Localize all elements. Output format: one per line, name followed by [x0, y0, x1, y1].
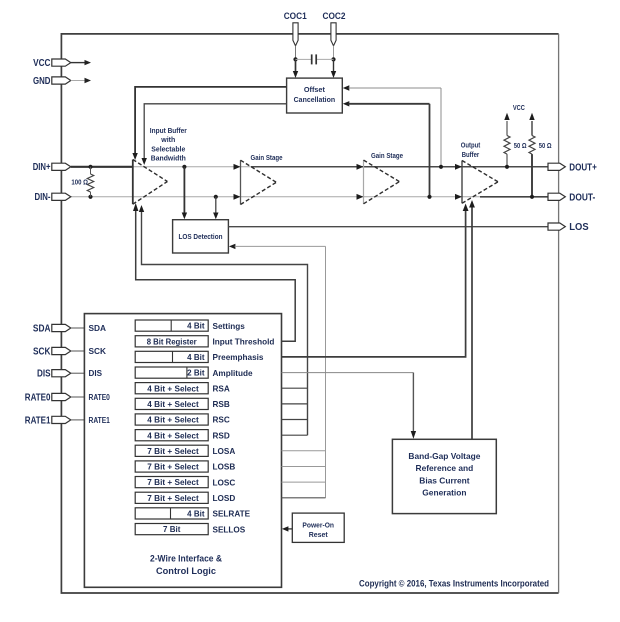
svg-text:SELLOS: SELLOS — [213, 525, 246, 534]
register row RSC — [135, 414, 230, 425]
pin DIS — [37, 369, 84, 380]
svg-text:LOSB: LOSB — [213, 463, 236, 472]
capacitor between COC1 and COC2 — [296, 54, 334, 64]
svg-text:4 Bit + Select: 4 Bit + Select — [147, 400, 199, 409]
svg-text:SELRATE: SELRATE — [213, 510, 251, 519]
svg-text:SDA: SDA — [33, 323, 51, 334]
svg-text:SCK: SCK — [89, 347, 107, 356]
svg-text:Output: Output — [461, 141, 481, 150]
pin RATE1 — [25, 415, 85, 426]
resistor 100 ohm input termination — [71, 165, 93, 199]
block 2-wire interface control logic — [84, 314, 281, 588]
svg-text:Input Threshold: Input Threshold — [213, 338, 275, 347]
node junction to LOS detection from top rail — [182, 165, 187, 220]
block Offset Cancellation — [287, 78, 343, 113]
svg-text:RATE1: RATE1 — [25, 415, 51, 426]
pin VCC — [33, 58, 71, 69]
svg-text:SCK: SCK — [33, 346, 51, 357]
svg-text:4 Bit: 4 Bit — [187, 353, 205, 362]
svg-text:RSC: RSC — [213, 416, 230, 425]
svg-text:RATE1: RATE1 — [89, 416, 111, 425]
register row RSD — [135, 430, 230, 441]
resistor 50 ohm pullup 2 — [529, 113, 552, 199]
pin SCK — [33, 346, 84, 357]
svg-text:Reset: Reset — [309, 532, 329, 539]
svg-text:Reference and: Reference and — [416, 463, 474, 473]
op-amp output buffer — [461, 141, 498, 204]
pin COC2 — [323, 11, 346, 46]
pin DIN+ — [33, 162, 71, 173]
wire GND arrow — [71, 78, 91, 83]
svg-text:Gain Stage: Gain Stage — [251, 153, 283, 162]
svg-text:Cancellation: Cancellation — [294, 95, 336, 104]
svg-text:4 Bit + Select: 4 Bit + Select — [147, 416, 199, 425]
wire feedback lower from DOUT- rail to offset — [343, 101, 432, 199]
pin GND — [33, 76, 71, 87]
svg-text:7 Bit: 7 Bit — [163, 525, 181, 534]
wire rate select net RSA-RSD to input buffer — [139, 205, 308, 435]
svg-text:4 Bit: 4 Bit — [187, 322, 205, 331]
pin COC1 — [284, 11, 308, 46]
arrow into gain stage 2 top rail — [357, 164, 364, 170]
svg-text:COC2: COC2 — [323, 11, 346, 22]
svg-text:COC1: COC1 — [284, 11, 308, 22]
svg-text:LOS: LOS — [569, 222, 589, 233]
wire bias net band-gap to output buffer — [469, 200, 475, 439]
svg-text:Settings: Settings — [213, 322, 246, 331]
wire feedback upper from DOUT+ rail to offset — [343, 85, 443, 169]
arrow into gain stage 1 top rail — [234, 164, 241, 170]
svg-text:Preemphasis: Preemphasis — [213, 353, 264, 362]
wire VCC arrow — [71, 60, 91, 65]
svg-text:4 Bit + Select: 4 Bit + Select — [147, 384, 199, 393]
wire DIN+ to input buffer — [71, 166, 133, 168]
svg-text:LOS Detection: LOS Detection — [179, 232, 223, 241]
chip outer border — [61, 34, 558, 593]
svg-text:7 Bit + Select: 7 Bit + Select — [147, 494, 199, 503]
block LOS Detection — [173, 220, 229, 253]
node junction to LOS detection from bottom rail — [213, 195, 218, 220]
svg-text:7 Bit + Select: 7 Bit + Select — [147, 478, 199, 487]
op-amp gain stage 1 — [241, 153, 283, 205]
svg-text:RSA: RSA — [213, 384, 230, 393]
pin DOUT- — [548, 192, 595, 203]
svg-text:2 Bit: 2 Bit — [187, 369, 205, 378]
svg-text:50 Ω: 50 Ω — [539, 143, 552, 150]
svg-text:DIN-: DIN- — [35, 192, 51, 203]
pin RATE0 — [25, 392, 85, 403]
svg-text:DOUT+: DOUT+ — [569, 162, 597, 173]
wire top rail dark segment — [251, 166, 549, 168]
svg-text:DIS: DIS — [37, 369, 51, 380]
pin DIN- — [35, 192, 71, 203]
svg-text:LOSD: LOSD — [213, 494, 236, 503]
arrow into gain stage 2 bottom rail — [357, 194, 364, 200]
arrow into output buffer top rail — [455, 164, 462, 170]
register row Amplitude — [135, 367, 253, 378]
register row LOSB — [135, 461, 235, 472]
wire preemphasis net to output buffer — [282, 204, 469, 357]
svg-text:RATE0: RATE0 — [89, 393, 111, 402]
register row Preemphasis — [135, 351, 264, 362]
svg-text:Band-Gap Voltage: Band-Gap Voltage — [408, 451, 480, 461]
label input buffer — [150, 126, 187, 163]
svg-text:4 Bit: 4 Bit — [187, 510, 205, 519]
pin SDA — [33, 323, 85, 334]
svg-text:Amplitude: Amplitude — [213, 369, 253, 378]
svg-text:Power-On: Power-On — [302, 523, 334, 530]
pin LOS — [548, 222, 589, 233]
svg-text:RSB: RSB — [213, 400, 230, 409]
op-amp input buffer — [133, 160, 168, 205]
svg-text:LOSC: LOSC — [213, 478, 236, 487]
register row RSB — [135, 398, 230, 409]
register row Input Threshold — [135, 336, 274, 347]
svg-text:GND: GND — [33, 76, 51, 87]
svg-text:Gain Stage: Gain Stage — [371, 151, 403, 160]
svg-text:7 Bit + Select: 7 Bit + Select — [147, 463, 199, 472]
svg-text:Bandwidth: Bandwidth — [151, 153, 186, 162]
wire power-on reset arrow — [282, 526, 292, 531]
svg-text:4 Bit + Select: 4 Bit + Select — [147, 431, 199, 440]
svg-text:Selectable: Selectable — [151, 144, 185, 153]
wire offset output lower to input buffer — [142, 104, 287, 165]
svg-text:RSD: RSD — [213, 431, 230, 440]
block Power-On Reset — [292, 513, 344, 542]
svg-text:2-Wire Interface &: 2-Wire Interface & — [150, 554, 223, 564]
svg-text:50 Ω: 50 Ω — [514, 143, 527, 150]
wire COC2 down — [331, 46, 336, 78]
wire top rail light segment — [133, 166, 251, 168]
block Band-Gap Voltage Reference — [392, 439, 496, 513]
svg-text:VCC: VCC — [513, 103, 525, 112]
pin DOUT+ — [548, 162, 597, 173]
arrow into output buffer bottom rail — [455, 194, 462, 200]
svg-text:Offset: Offset — [304, 85, 325, 94]
svg-text:Copyright © 2016, Texas Instru: Copyright © 2016, Texas Instruments Inco… — [359, 579, 549, 589]
svg-text:Generation: Generation — [422, 487, 466, 497]
register row LOSA — [135, 445, 235, 456]
svg-text:Bias Current: Bias Current — [419, 475, 469, 485]
svg-text:LOSA: LOSA — [213, 447, 236, 456]
resistor 50 ohm pullup 1 — [504, 113, 527, 169]
svg-text:7 Bit + Select: 7 Bit + Select — [147, 447, 199, 456]
register row LOSD — [135, 492, 235, 503]
svg-text:DOUT-: DOUT- — [569, 192, 595, 203]
wire bottom rail dark segment to DOUT- — [480, 196, 549, 198]
wire amplitude net to band-gap — [282, 373, 417, 439]
op-amp gain stage 2 — [364, 151, 404, 204]
svg-text:RATE0: RATE0 — [25, 392, 51, 403]
svg-text:Buffer: Buffer — [462, 150, 480, 159]
register row RSA — [135, 383, 230, 394]
svg-text:VCC: VCC — [33, 58, 50, 69]
svg-text:DIN+: DIN+ — [33, 162, 51, 173]
svg-text:SDA: SDA — [89, 324, 107, 333]
svg-text:Control Logic: Control Logic — [156, 566, 216, 576]
wire offset output upper to input buffer — [132, 87, 286, 160]
svg-text:DIS: DIS — [89, 369, 103, 378]
wire input threshold net to input buffer — [133, 203, 295, 341]
register row Settings — [135, 320, 245, 331]
svg-text:with: with — [160, 135, 175, 144]
wire LOS level net LOSA-LOSD stubs — [282, 451, 326, 498]
wire COC1 down — [293, 46, 298, 78]
svg-text:100 Ω: 100 Ω — [71, 179, 88, 186]
svg-text:8 Bit Register: 8 Bit Register — [147, 337, 197, 346]
register row LOSC — [135, 477, 235, 488]
wire bottom rail light segment — [71, 196, 480, 198]
register row SELRATE — [135, 508, 250, 519]
wire LOS detection output to LOS pin — [228, 226, 549, 228]
register row SELLOS — [135, 524, 246, 535]
svg-text:Input Buffer: Input Buffer — [150, 126, 187, 135]
wire LOS control input from control logic — [229, 244, 326, 498]
arrow into gain stage 1 bottom rail — [234, 194, 241, 200]
